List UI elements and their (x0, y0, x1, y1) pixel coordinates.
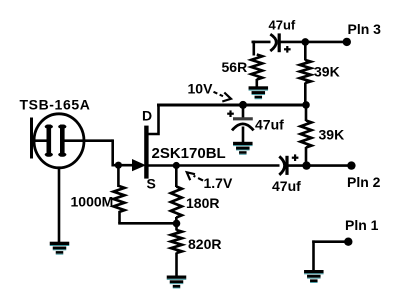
svg-text:Pln 1: Pln 1 (345, 217, 379, 233)
svg-text:47uf: 47uf (269, 18, 296, 33)
svg-text:56R: 56R (222, 59, 248, 75)
svg-text:S: S (147, 175, 156, 191)
svg-text:TSB-165A: TSB-165A (20, 97, 91, 113)
svg-text:47uf: 47uf (272, 178, 301, 194)
svg-text:Pln 2: Pln 2 (347, 174, 381, 190)
svg-text:Pln 3: Pln 3 (348, 21, 382, 37)
svg-text:39K: 39K (314, 64, 340, 80)
svg-text:180R: 180R (186, 195, 219, 211)
svg-text:39K: 39K (319, 127, 345, 143)
svg-text:2SK170BL: 2SK170BL (152, 145, 226, 162)
svg-text:1.7V: 1.7V (204, 175, 233, 191)
svg-text:820R: 820R (188, 236, 221, 252)
svg-text:1000M: 1000M (71, 194, 114, 210)
svg-text:10V: 10V (188, 81, 214, 97)
svg-text:47uf: 47uf (255, 117, 284, 133)
svg-text:D: D (142, 107, 152, 123)
